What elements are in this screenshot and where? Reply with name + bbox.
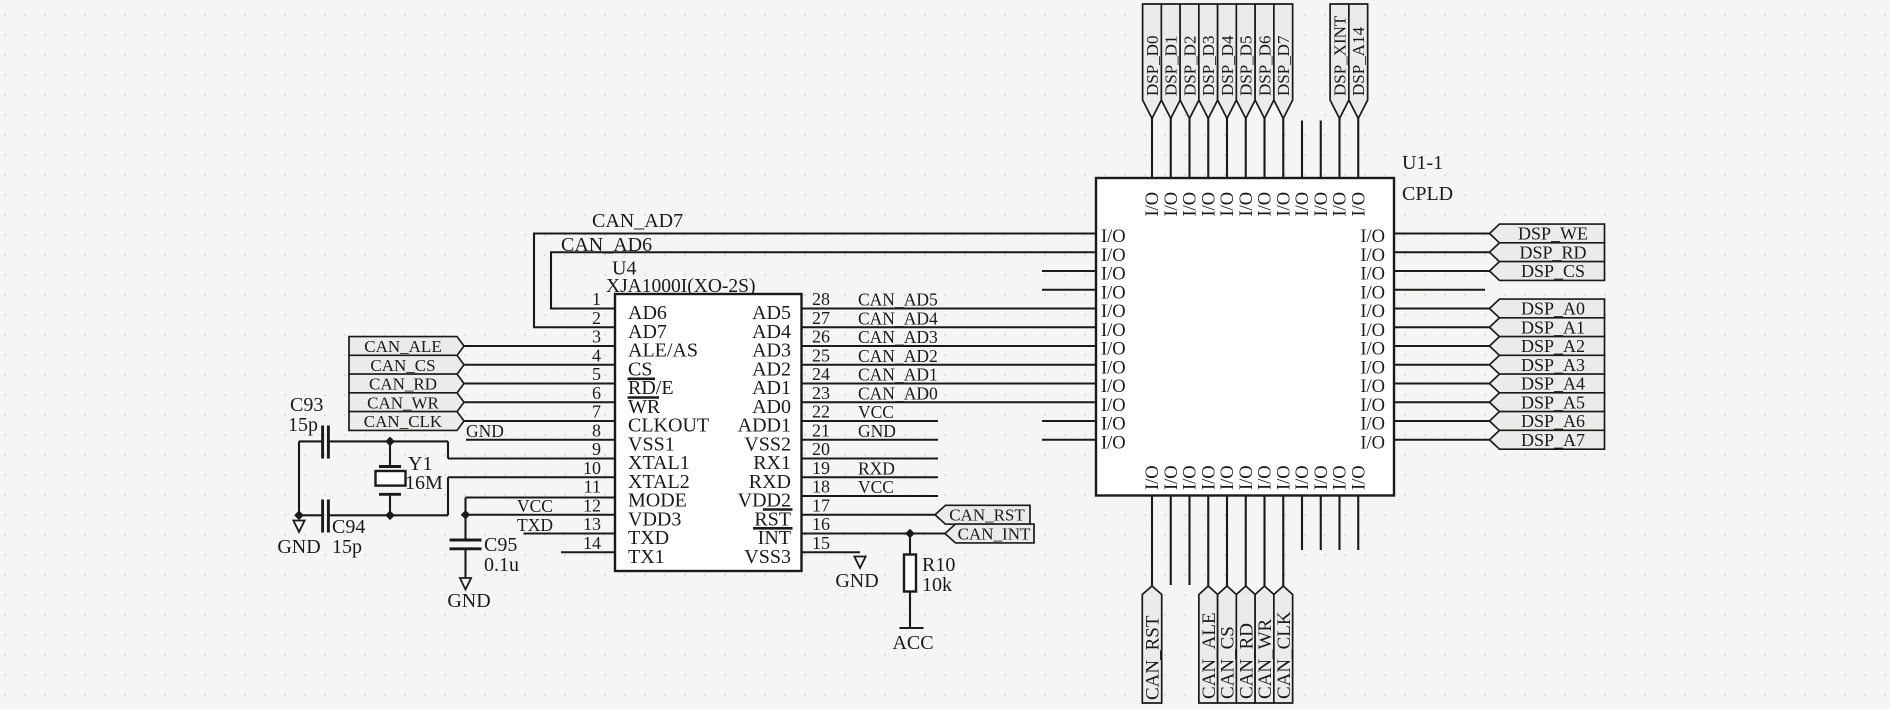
svg-text:15: 15 bbox=[812, 533, 830, 553]
ground symbol (C95) bbox=[460, 578, 471, 590]
svg-text:I/O: I/O bbox=[1256, 192, 1276, 217]
svg-text:20: 20 bbox=[812, 439, 830, 459]
svg-text:I/O: I/O bbox=[1293, 465, 1313, 490]
svg-text:I/O: I/O bbox=[1143, 192, 1163, 217]
wire TXD to pin 13 bbox=[524, 532, 616, 534]
net flag DSP_A0 bbox=[1490, 299, 1605, 318]
svg-text:DSP_A6: DSP_A6 bbox=[1521, 411, 1585, 431]
svg-text:I/O: I/O bbox=[1181, 465, 1201, 490]
svg-text:GND: GND bbox=[466, 421, 504, 441]
net flag DSP_D0 bbox=[1143, 4, 1162, 119]
svg-text:I/O: I/O bbox=[1360, 265, 1385, 285]
svg-text:I/O: I/O bbox=[1101, 396, 1126, 416]
wire DSP_D0 to CPLD bbox=[1151, 119, 1153, 179]
resistor R10 bbox=[904, 555, 916, 592]
svg-text:CAN_RST: CAN_RST bbox=[1143, 615, 1164, 700]
svg-text:27: 27 bbox=[812, 308, 830, 328]
svg-text:22: 22 bbox=[812, 402, 830, 422]
svg-text:I/O: I/O bbox=[1101, 283, 1126, 303]
svg-text:I/O: I/O bbox=[1312, 192, 1332, 217]
svg-text:I/O: I/O bbox=[1237, 465, 1257, 490]
wire CPLD to CAN_RST (bottom) bbox=[1151, 496, 1153, 587]
svg-text:I/O: I/O bbox=[1101, 415, 1126, 435]
svg-text:R10: R10 bbox=[922, 554, 955, 576]
net flag DSP_CS bbox=[1490, 262, 1605, 281]
net flag DSP_D5 bbox=[1236, 4, 1255, 119]
wire CAN_CS to pin 4 bbox=[464, 364, 615, 366]
svg-text:CAN_AD1: CAN_AD1 bbox=[858, 365, 938, 385]
svg-text:TX1: TX1 bbox=[628, 546, 665, 568]
svg-text:DSP_A1: DSP_A1 bbox=[1521, 317, 1585, 337]
wire C93 right segment to node A bbox=[328, 440, 448, 442]
wire CPLD to DSP_A2 bbox=[1394, 345, 1490, 347]
svg-text:CAN_RD: CAN_RD bbox=[369, 375, 437, 394]
svg-text:DSP_D5: DSP_D5 bbox=[1237, 36, 1256, 96]
svg-text:I/O: I/O bbox=[1360, 227, 1385, 247]
svg-text:7: 7 bbox=[592, 402, 601, 422]
net flag DSP_A14 bbox=[1349, 4, 1368, 119]
svg-text:21: 21 bbox=[812, 420, 830, 440]
wire CPLD left stub row 3 bbox=[1042, 289, 1096, 291]
svg-text:1: 1 bbox=[592, 289, 601, 309]
svg-text:CAN_INT: CAN_INT bbox=[958, 524, 1031, 543]
node B junction (crystal bottom) bbox=[385, 511, 395, 521]
svg-text:I/O: I/O bbox=[1293, 192, 1313, 217]
svg-text:I/O: I/O bbox=[1199, 465, 1219, 490]
wire CAN_AD6 net bbox=[551, 252, 1096, 308]
wire CAN_WR to pin 6 bbox=[464, 401, 615, 403]
svg-text:I/O: I/O bbox=[1312, 465, 1332, 490]
svg-text:CAN_AD2: CAN_AD2 bbox=[858, 346, 938, 366]
net flag DSP_D4 bbox=[1218, 4, 1237, 119]
net flag CAN_RST (bottom) bbox=[1142, 586, 1161, 703]
wire CPLD to DSP_A3 bbox=[1394, 364, 1490, 366]
svg-text:CAN_AD4: CAN_AD4 bbox=[858, 308, 938, 328]
svg-text:I/O: I/O bbox=[1349, 465, 1369, 490]
wire DSP_D5 to CPLD bbox=[1245, 119, 1247, 179]
svg-text:DSP_A0: DSP_A0 bbox=[1521, 299, 1585, 319]
wire CPLD to DSP_A0 bbox=[1394, 307, 1490, 309]
wire CPLD to DSP_WE bbox=[1394, 232, 1490, 234]
net flag CAN_RD (bottom) bbox=[1236, 586, 1255, 703]
wire pin 21 GND bbox=[802, 439, 939, 441]
svg-text:I/O: I/O bbox=[1360, 433, 1385, 453]
net flag DSP_A5 bbox=[1490, 393, 1605, 412]
wire CAN_RD to pin 5 bbox=[464, 382, 615, 384]
RD active-low bar bbox=[628, 396, 660, 399]
svg-text:C95: C95 bbox=[484, 534, 517, 556]
wire DSP_D4 to CPLD bbox=[1226, 119, 1228, 179]
wire pin 11 MODE bbox=[466, 496, 616, 498]
svg-text:I/O: I/O bbox=[1101, 377, 1126, 397]
svg-text:DSP_A2: DSP_A2 bbox=[1521, 336, 1585, 356]
net flag DSP_D3 bbox=[1199, 4, 1218, 119]
svg-text:0.1u: 0.1u bbox=[484, 554, 519, 576]
svg-text:DSP_XINT: DSP_XINT bbox=[1330, 15, 1349, 96]
wire XTAL1 vertical bbox=[447, 441, 449, 458]
net flag CAN_INT bbox=[945, 524, 1034, 543]
svg-text:I/O: I/O bbox=[1218, 465, 1238, 490]
wire DSP_D2 to CPLD bbox=[1188, 119, 1190, 179]
net flag DSP_D7 bbox=[1274, 4, 1293, 119]
svg-text:DSP_D1: DSP_D1 bbox=[1162, 36, 1181, 96]
svg-text:DSP_A4: DSP_A4 bbox=[1521, 374, 1585, 394]
net flag CAN_WR (bottom) bbox=[1255, 586, 1274, 703]
wire VCC to pin 12 VDD3 bbox=[466, 514, 616, 516]
svg-text:I/O: I/O bbox=[1256, 465, 1276, 490]
svg-text:CAN_RST: CAN_RST bbox=[949, 506, 1025, 525]
svg-text:DSP_A7: DSP_A7 bbox=[1521, 430, 1585, 450]
svg-text:I/O: I/O bbox=[1331, 192, 1351, 217]
net flag CAN_RST bbox=[935, 505, 1030, 524]
svg-text:14: 14 bbox=[583, 533, 601, 553]
svg-text:18: 18 bbox=[812, 477, 830, 497]
svg-text:15p: 15p bbox=[332, 536, 362, 558]
svg-text:GND: GND bbox=[835, 570, 878, 592]
svg-text:I/O: I/O bbox=[1360, 358, 1385, 378]
svg-text:GND: GND bbox=[858, 421, 896, 441]
wire CPLD to CAN_CLK (bottom) bbox=[1282, 496, 1284, 587]
net flag DSP_A7 bbox=[1490, 430, 1605, 449]
svg-text:GND: GND bbox=[277, 536, 320, 558]
svg-text:DSP_D0: DSP_D0 bbox=[1143, 36, 1162, 96]
svg-text:I/O: I/O bbox=[1360, 302, 1385, 322]
svg-text:I/O: I/O bbox=[1162, 465, 1182, 490]
wire CAN_ALE to pin 3 bbox=[464, 345, 615, 347]
wire CPLD to DSP_CS bbox=[1394, 270, 1490, 272]
net flag CAN_RD bbox=[349, 374, 464, 393]
svg-text:DSP_RD: DSP_RD bbox=[1519, 242, 1586, 262]
wire CPLD to DSP_A7 bbox=[1394, 439, 1490, 441]
junction R10 tap bbox=[905, 529, 915, 539]
svg-text:11: 11 bbox=[584, 477, 601, 497]
svg-text:6: 6 bbox=[592, 383, 601, 403]
net flag CAN_WR bbox=[349, 393, 464, 412]
wire CPLD bottom stub col 1 bbox=[1170, 496, 1172, 586]
svg-text:17: 17 bbox=[812, 495, 830, 515]
svg-text:I/O: I/O bbox=[1360, 283, 1385, 303]
svg-text:26: 26 bbox=[812, 327, 830, 347]
svg-text:25: 25 bbox=[812, 345, 830, 365]
wire DSP_XINT to CPLD bbox=[1338, 119, 1340, 179]
svg-text:15p: 15p bbox=[288, 414, 318, 436]
wire CPLD bottom stub col 8 bbox=[1301, 496, 1303, 551]
wire CAN_AD4 (U4 pin 27 to CPLD) bbox=[802, 326, 1097, 328]
net flag DSP_WE bbox=[1490, 224, 1605, 243]
wire CPLD bottom stub col 2 bbox=[1188, 496, 1190, 586]
svg-text:28: 28 bbox=[812, 289, 830, 309]
wire CPLD to DSP_A6 bbox=[1394, 420, 1490, 422]
wire C94 right segment / XTAL2 net bbox=[328, 514, 448, 516]
wire CPLD to DSP_A1 bbox=[1394, 326, 1490, 328]
net flag DSP_RD bbox=[1490, 243, 1605, 262]
svg-text:RXD: RXD bbox=[858, 458, 895, 478]
VDD2 active-low bar bbox=[763, 508, 793, 511]
wire CAN_AD1 (U4 pin 24 to CPLD) bbox=[802, 382, 1097, 384]
svg-text:I/O: I/O bbox=[1143, 465, 1163, 490]
svg-text:CAN_ALE: CAN_ALE bbox=[364, 337, 441, 356]
net flag DSP_A2 bbox=[1490, 337, 1605, 356]
wire pin 22 VCC bbox=[802, 420, 939, 422]
svg-text:CPLD: CPLD bbox=[1402, 183, 1453, 205]
svg-text:VCC: VCC bbox=[858, 402, 894, 422]
svg-text:I/O: I/O bbox=[1101, 246, 1126, 266]
svg-text:DSP_D7: DSP_D7 bbox=[1274, 35, 1293, 96]
wire C94 left segment bbox=[299, 514, 323, 516]
svg-text:DSP_D6: DSP_D6 bbox=[1255, 36, 1274, 96]
svg-text:CAN_AD0: CAN_AD0 bbox=[858, 383, 938, 403]
svg-text:CAN_AD7: CAN_AD7 bbox=[592, 210, 683, 232]
capacitor C93 bbox=[323, 426, 329, 459]
svg-text:TXD: TXD bbox=[517, 515, 553, 535]
wire node A down to Y1 bbox=[389, 441, 391, 466]
svg-text:I/O: I/O bbox=[1360, 377, 1385, 397]
svg-text:I/O: I/O bbox=[1360, 415, 1385, 435]
svg-text:DSP_D3: DSP_D3 bbox=[1199, 36, 1218, 96]
net flag DSP_A6 bbox=[1490, 412, 1605, 431]
svg-text:C93: C93 bbox=[290, 394, 323, 416]
wire CPLD bottom stub col 11 bbox=[1357, 496, 1359, 551]
wire DSP_D6 to CPLD bbox=[1263, 119, 1265, 179]
net flag DSP_D2 bbox=[1180, 4, 1199, 119]
svg-text:23: 23 bbox=[812, 383, 830, 403]
svg-text:I/O: I/O bbox=[1101, 358, 1126, 378]
svg-text:U1-1: U1-1 bbox=[1402, 152, 1443, 174]
svg-text:13: 13 bbox=[583, 514, 601, 534]
svg-text:CAN_CLK: CAN_CLK bbox=[364, 412, 443, 431]
RST active-low bar bbox=[753, 527, 793, 530]
svg-text:10k: 10k bbox=[922, 574, 952, 596]
wire CPLD to CAN_RD (bottom) bbox=[1245, 496, 1247, 587]
net flag CAN_CLK (bottom) bbox=[1274, 586, 1293, 703]
net flag DSP_XINT bbox=[1330, 4, 1349, 119]
svg-text:19: 19 bbox=[812, 458, 830, 478]
svg-text:DSP_A5: DSP_A5 bbox=[1521, 392, 1585, 412]
net flag CAN_ALE (bottom) bbox=[1199, 586, 1218, 703]
wire pin 18 VCC bbox=[802, 495, 939, 497]
svg-text:2: 2 bbox=[592, 308, 601, 328]
svg-text:DSP_D2: DSP_D2 bbox=[1180, 36, 1199, 96]
IC U4 body bbox=[615, 294, 802, 571]
junction GND tap bbox=[294, 511, 304, 521]
svg-text:I/O: I/O bbox=[1101, 321, 1126, 341]
wire CPLD top stub col 9 bbox=[1320, 121, 1322, 179]
wire CPLD to CAN_ALE (bottom) bbox=[1207, 496, 1209, 587]
svg-text:I/O: I/O bbox=[1101, 227, 1126, 247]
svg-text:I/O: I/O bbox=[1101, 433, 1126, 453]
svg-text:CAN_AD5: CAN_AD5 bbox=[858, 290, 938, 310]
IC U1-1 CPLD body bbox=[1096, 178, 1394, 496]
wire pin 16 INT to flag bbox=[802, 532, 946, 534]
svg-text:VSS3: VSS3 bbox=[744, 546, 791, 568]
svg-text:DSP_A3: DSP_A3 bbox=[1521, 355, 1585, 375]
svg-text:I/O: I/O bbox=[1218, 192, 1238, 217]
wire left vertical C93-C94 bbox=[298, 441, 300, 515]
net flag DSP_D1 bbox=[1161, 4, 1180, 119]
wire pin 20 stub bbox=[802, 457, 939, 459]
wire pin 17 RST to flag bbox=[802, 514, 936, 516]
junction VCC node bbox=[461, 510, 471, 520]
wire DSP_D1 to CPLD bbox=[1170, 119, 1172, 179]
wire CAN_AD3 (U4 pin 26 to CPLD) bbox=[802, 345, 1097, 347]
wire pin 19 RXD bbox=[802, 476, 939, 478]
wire C95 down to ground bbox=[464, 549, 466, 578]
wire DSP_D3 to CPLD bbox=[1207, 119, 1209, 179]
svg-text:I/O: I/O bbox=[1181, 192, 1201, 217]
wire CPLD left stub row 2 bbox=[1042, 270, 1096, 272]
svg-text:16: 16 bbox=[812, 514, 830, 534]
net flag DSP_A3 bbox=[1490, 355, 1605, 374]
wire CPLD bottom stub col 9 bbox=[1320, 496, 1322, 551]
svg-text:C94: C94 bbox=[332, 516, 365, 538]
wire R10 to ACC bbox=[909, 592, 911, 629]
wire DSP_D7 to CPLD bbox=[1282, 119, 1284, 179]
wire Y1 down to node B bbox=[389, 494, 391, 515]
svg-text:CAN_CLK: CAN_CLK bbox=[1274, 611, 1295, 699]
wire CAN_AD2 (U4 pin 25 to CPLD) bbox=[802, 364, 1097, 366]
svg-text:4: 4 bbox=[592, 345, 601, 365]
node A junction (crystal top) bbox=[385, 437, 395, 447]
svg-text:GND: GND bbox=[447, 590, 490, 612]
svg-text:DSP_CS: DSP_CS bbox=[1521, 261, 1585, 281]
net flag CAN_CLK bbox=[349, 412, 464, 431]
wire XTAL2 vertical bbox=[447, 477, 449, 515]
wire DSP_A14 to CPLD bbox=[1357, 119, 1359, 179]
wire CAN_CLK to pin 7 bbox=[464, 420, 615, 422]
svg-text:12: 12 bbox=[583, 495, 601, 515]
wire CAN_AD0 (U4 pin 23 to CPLD) bbox=[802, 401, 1097, 403]
wire CPLD left stub row 10 bbox=[1042, 420, 1096, 422]
net flag DSP_A1 bbox=[1490, 318, 1605, 337]
svg-text:9: 9 bbox=[592, 439, 601, 459]
wire CAN_AD5 (U4 pin 28 to CPLD) bbox=[802, 307, 1097, 309]
svg-text:I/O: I/O bbox=[1162, 192, 1182, 217]
wire to pin 10 XTAL2 bbox=[448, 476, 615, 478]
svg-text:I/O: I/O bbox=[1360, 246, 1385, 266]
wire CPLD top stub col 8 bbox=[1301, 121, 1303, 179]
wire CAN_AD7 net bbox=[534, 234, 1096, 328]
wire CPLD to DSP_A4 bbox=[1394, 382, 1490, 384]
wire CPLD right stub row 3 bbox=[1394, 289, 1485, 291]
svg-text:I/O: I/O bbox=[1360, 396, 1385, 416]
wire pin 15 VSS3 to ground bbox=[802, 551, 861, 553]
svg-text:I/O: I/O bbox=[1360, 340, 1385, 360]
wire CPLD to CAN_WR (bottom) bbox=[1263, 496, 1265, 587]
wire pin 14 TX1 stub bbox=[561, 551, 615, 553]
wire CPLD left stub row 11 bbox=[1042, 439, 1096, 441]
svg-text:ACC: ACC bbox=[892, 632, 933, 654]
svg-text:16M: 16M bbox=[405, 472, 443, 494]
svg-text:24: 24 bbox=[812, 364, 830, 384]
svg-text:DSP_D4: DSP_D4 bbox=[1218, 35, 1237, 96]
svg-text:CAN_WR: CAN_WR bbox=[367, 393, 439, 412]
wire CPLD to DSP_A5 bbox=[1394, 401, 1490, 403]
wire CPLD to DSP_RD bbox=[1394, 251, 1490, 253]
svg-text:5: 5 bbox=[592, 364, 601, 384]
svg-text:VCC: VCC bbox=[517, 496, 553, 516]
CS active-low bar bbox=[628, 377, 656, 380]
wire CPLD bottom stub col 10 bbox=[1338, 496, 1340, 551]
svg-text:I/O: I/O bbox=[1101, 302, 1126, 322]
svg-text:8: 8 bbox=[592, 420, 601, 440]
net flag CAN_ALE bbox=[349, 337, 464, 356]
capacitor C94 bbox=[323, 500, 329, 533]
ground symbol (pin 15) bbox=[854, 557, 865, 569]
wire INT node down to R10 bbox=[909, 534, 911, 555]
net flag CAN_CS (bottom) bbox=[1218, 586, 1237, 703]
svg-text:I/O: I/O bbox=[1274, 465, 1294, 490]
net flag DSP_D6 bbox=[1255, 4, 1274, 119]
capacitor C95 bbox=[450, 540, 482, 549]
wire C93 left segment / XTAL1 net bbox=[299, 440, 323, 442]
svg-text:DSP_A14: DSP_A14 bbox=[1349, 27, 1368, 96]
wire MODE down to VCC node bbox=[464, 498, 466, 515]
net flag CAN_CS bbox=[349, 355, 464, 374]
svg-text:I/O: I/O bbox=[1101, 265, 1126, 285]
svg-text:CAN_CS: CAN_CS bbox=[370, 356, 435, 375]
svg-text:3: 3 bbox=[592, 327, 601, 347]
svg-text:I/O: I/O bbox=[1360, 321, 1385, 341]
power symbol ACC bbox=[900, 627, 924, 629]
svg-text:I/O: I/O bbox=[1331, 465, 1351, 490]
wire VCC node down to C95 bbox=[464, 515, 466, 540]
svg-text:I/O: I/O bbox=[1101, 340, 1126, 360]
svg-text:10: 10 bbox=[583, 458, 601, 478]
svg-text:VCC: VCC bbox=[858, 477, 894, 497]
ground symbol (crystal) bbox=[293, 521, 304, 533]
svg-text:DSP_WE: DSP_WE bbox=[1518, 224, 1588, 244]
svg-text:I/O: I/O bbox=[1199, 192, 1219, 217]
svg-text:I/O: I/O bbox=[1237, 192, 1257, 217]
wire GND to pin 8 bbox=[466, 439, 615, 441]
svg-text:I/O: I/O bbox=[1274, 192, 1294, 217]
net flag DSP_A4 bbox=[1490, 374, 1605, 393]
svg-text:I/O: I/O bbox=[1349, 192, 1369, 217]
wire CPLD to CAN_CS (bottom) bbox=[1226, 496, 1228, 587]
wire to pin 9 XTAL1 bbox=[448, 457, 615, 459]
svg-text:CAN_AD3: CAN_AD3 bbox=[858, 327, 938, 347]
crystal Y1 bbox=[379, 467, 401, 495]
